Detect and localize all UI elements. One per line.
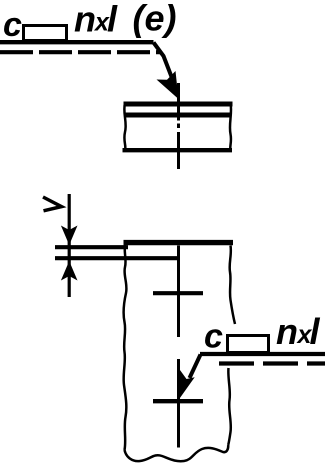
svg-text:n: n bbox=[276, 311, 298, 352]
lower part: centerline dash 2 bbox=[177, 359, 180, 448]
lower part: right break line lower bbox=[228, 368, 231, 445]
dimension: chevron mark bbox=[43, 197, 62, 211]
weld symbol 2: reference line bbox=[200, 352, 325, 356]
lower part: lower plate edge line bbox=[55, 256, 179, 260]
svg-text:n: n bbox=[74, 0, 96, 40]
svg-text:c: c bbox=[3, 6, 22, 44]
lower part: lower center cross bar bbox=[153, 399, 203, 403]
upper part: bottom edge line bbox=[123, 148, 233, 152]
weld symbol 2: arrowhead bbox=[179, 370, 195, 400]
weld symbol 1: reference line bbox=[0, 40, 154, 44]
weld symbol 2: leader arrow line bbox=[190, 355, 201, 379]
lower part: upper center cross bar bbox=[153, 291, 203, 295]
weld symbol 1: arrowhead bbox=[157, 71, 179, 99]
lower part: bottom break line bbox=[125, 445, 229, 461]
dimension: upper arrowhead bbox=[61, 226, 78, 246]
weld symbol 1: box bbox=[24, 26, 67, 41]
dimension: lower arrowhead bbox=[61, 261, 78, 281]
svg-text:l: l bbox=[107, 0, 118, 40]
upper part: top edge thick line bbox=[124, 102, 233, 107]
upper part: plate seam line bbox=[124, 113, 230, 118]
upper part: right break line bbox=[230, 103, 231, 150]
weld symbol 2: dashed identification line bbox=[219, 361, 325, 365]
lower part: centerline dash 1 bbox=[177, 246, 180, 338]
upper part: centerline dash 2 bbox=[177, 132, 180, 169]
weld symbol 2: box bbox=[228, 336, 269, 353]
svg-text:c: c bbox=[204, 318, 223, 356]
lower part: upper plate edge line bbox=[55, 245, 128, 249]
lower part: left break line bbox=[124, 241, 127, 450]
upper part: centerline dot bbox=[177, 124, 180, 129]
svg-text:(e): (e) bbox=[133, 0, 177, 39]
lower part: right break line upper bbox=[230, 246, 235, 325]
lower part: top edge thick line bbox=[124, 240, 234, 245]
dimension: extension line bbox=[68, 194, 71, 297]
svg-text:l: l bbox=[310, 311, 321, 352]
weld symbol 1: leader arrow line bbox=[154, 43, 173, 79]
upper part: left break line bbox=[124, 103, 125, 150]
upper part: centerline dash 1 bbox=[177, 83, 180, 121]
weld symbol 1: dashed identification line bbox=[0, 50, 161, 54]
